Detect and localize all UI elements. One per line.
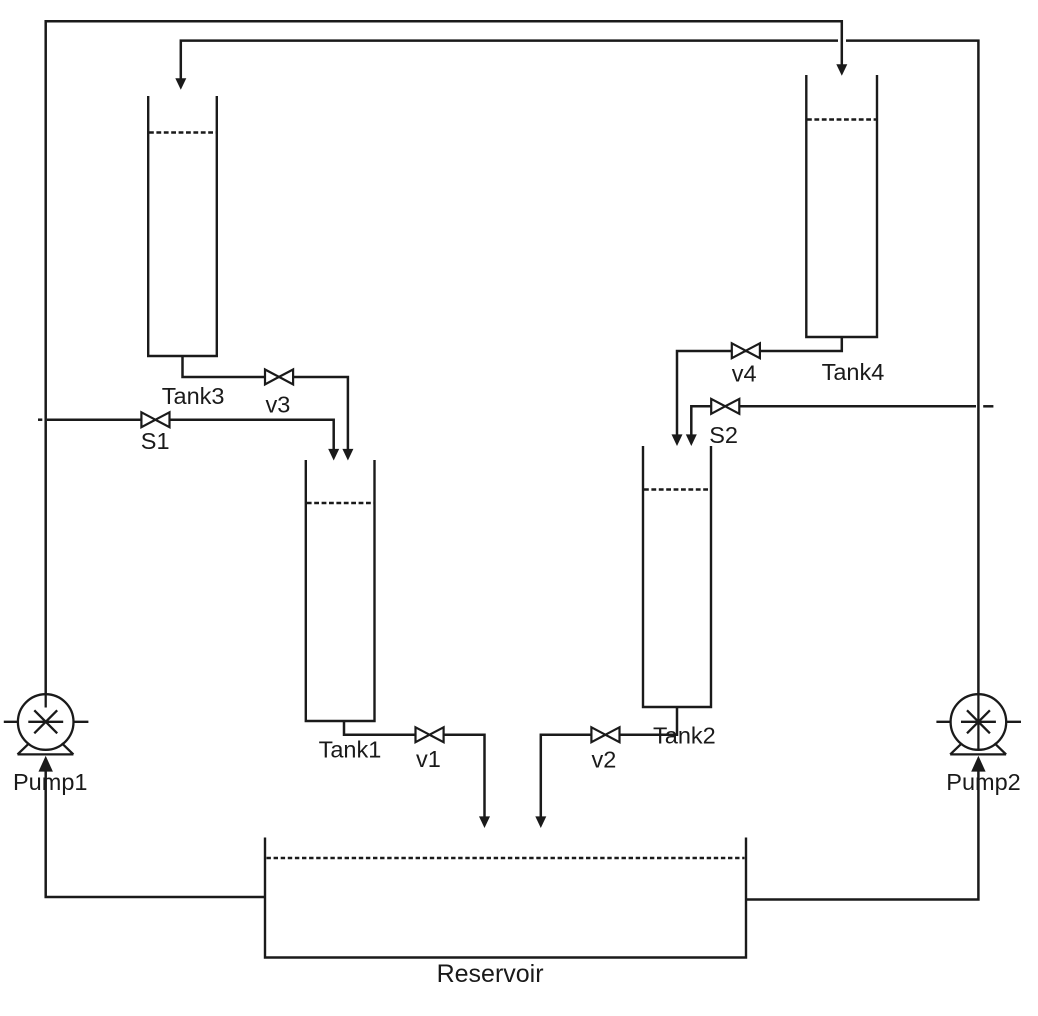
tank Tank2 walls xyxy=(643,446,711,707)
valve v3 xyxy=(265,370,293,385)
svg-text:v2: v2 xyxy=(592,747,617,773)
tank Tank1 walls xyxy=(306,460,375,721)
wire Reservoir to Pump2 suction xyxy=(746,772,978,900)
tank Tank4 walls xyxy=(806,75,877,337)
arrow S2 line into Tank2 xyxy=(686,434,697,446)
wire pump1 output: left border up, across top, down into Tank4 xyxy=(46,21,842,707)
tank Tank3 walls xyxy=(148,96,217,356)
wire S1 line from left border to Tank1 xyxy=(47,420,334,449)
svg-text:Tank3: Tank3 xyxy=(162,383,225,409)
arrow v1 line into Reservoir xyxy=(479,816,490,828)
svg-text:Pump2: Pump2 xyxy=(946,769,1020,795)
arrow into Tank3 xyxy=(175,78,186,90)
level line Tank3 xyxy=(149,131,216,133)
arrow v4 line into Tank2 xyxy=(672,434,683,446)
svg-text:Tank4: Tank4 xyxy=(822,359,885,385)
wire Reservoir to Pump1 suction xyxy=(46,772,265,898)
svg-text:v3: v3 xyxy=(266,391,291,417)
wire Tank2 outlet through v2 down to Reservoir xyxy=(541,707,677,817)
svg-text:Tank2: Tank2 xyxy=(653,723,716,749)
svg-text:Reservoir: Reservoir xyxy=(437,960,544,988)
valve v4 xyxy=(732,343,760,358)
arrow S1 line into Tank1 xyxy=(328,449,339,461)
pump Pump2 xyxy=(936,694,1021,754)
arrow into Pump2 xyxy=(971,756,985,772)
node stub right of border at S2 level xyxy=(983,405,993,408)
level line Reservoir xyxy=(267,857,745,859)
pump Pump1 xyxy=(4,694,89,754)
valve v2 xyxy=(591,727,619,742)
wire Tank1 outlet through v1 down to Reservoir xyxy=(344,721,485,817)
svg-text:Tank1: Tank1 xyxy=(319,737,382,763)
svg-text:S1: S1 xyxy=(141,428,170,454)
node stub left of border at S1 level xyxy=(38,418,42,421)
tank Reservoir walls xyxy=(265,838,746,958)
arrow v3 line into Tank1 xyxy=(342,449,353,461)
svg-text:S2: S2 xyxy=(709,422,738,448)
level line Tank2 xyxy=(644,488,710,490)
valve S1 xyxy=(141,412,169,427)
level line Tank4 xyxy=(807,118,876,120)
valve S2 xyxy=(711,399,739,414)
valve v1 xyxy=(416,727,444,742)
svg-text:Pump1: Pump1 xyxy=(13,769,87,795)
wire pump2 output: right border up, across (with gap at crossing), down into Tank3 xyxy=(181,41,979,751)
arrow into Pump1 xyxy=(39,756,53,772)
level line Tank1 xyxy=(307,502,374,504)
wire Tank4 outlet through v4 down to Tank2 xyxy=(677,337,842,435)
svg-text:v4: v4 xyxy=(732,360,757,386)
wire Tank3 outlet through v3 down to Tank1 xyxy=(183,356,348,449)
wire S2 line from right border to Tank2 xyxy=(691,406,976,434)
arrow v2 line into Reservoir xyxy=(535,816,546,828)
arrow into Tank4 xyxy=(836,64,847,76)
svg-text:v1: v1 xyxy=(416,746,441,772)
